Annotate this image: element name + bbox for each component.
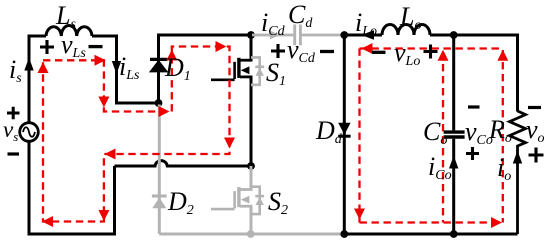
- ac source vs: [20, 123, 39, 142]
- capacitor Cd branch (gray): [252, 25, 343, 46]
- label Ro minus: [528, 106, 541, 109]
- iLs arrow: [112, 61, 121, 74]
- node top Dd: [340, 31, 348, 39]
- svg-text:S1: S1: [266, 58, 286, 89]
- red arrow left at (105,154): [105, 149, 116, 160]
- label Ro plus: [529, 148, 544, 163]
- svg-text:S2: S2: [268, 187, 288, 218]
- label vLo plus: [424, 45, 438, 59]
- gray bottom rail: [159, 233, 345, 236]
- svg-text:vLs: vLs: [61, 30, 86, 61]
- svg-text:Ls: Ls: [55, 1, 76, 32]
- svg-text:Ro: Ro: [488, 115, 512, 146]
- red loop 1 dashed path: [43, 47, 230, 222]
- red arrow left at (362,48.5): [362, 43, 373, 54]
- red loop 2 dashed frame: [360, 49, 503, 223]
- wire horizontal y=103: [115, 102, 159, 105]
- node top S1/Cd: [247, 31, 255, 39]
- bottom right rail: [344, 233, 518, 236]
- io arrow: [513, 151, 522, 164]
- label vCd minus: [320, 50, 334, 53]
- node bottom Co: [450, 230, 458, 238]
- svg-text:Co: Co: [423, 117, 447, 148]
- red arrow up at (502.8,50): [497, 50, 508, 61]
- diode Dd wire: [343, 35, 346, 234]
- label Co minus: [468, 105, 480, 108]
- svg-text:vLo: vLo: [394, 38, 420, 69]
- diode D1 wire: [157, 35, 160, 103]
- svg-text:iLs: iLs: [119, 52, 140, 83]
- node top Co: [450, 31, 458, 39]
- wire Lo to Co node: [430, 34, 454, 37]
- red arrow down at (359.5,219): [354, 209, 365, 220]
- label vCd plus: [271, 44, 285, 58]
- transistor S1: [211, 35, 253, 166]
- svg-text:is: is: [9, 55, 22, 86]
- wire bottom-left step: [29, 141, 115, 234]
- red arrow down at (104,220.5): [98, 210, 109, 221]
- node at D1 bottom: [155, 99, 163, 107]
- svg-text:iCd: iCd: [261, 8, 286, 39]
- svg-text:vs: vs: [3, 117, 18, 144]
- svg-text:D2: D2: [167, 187, 194, 218]
- S2 body diode (gray): [251, 187, 264, 214]
- red arrow right near (104,60): [95, 55, 106, 66]
- svg-text:vo: vo: [526, 115, 545, 146]
- transistor S2 (gray): [211, 166, 253, 234]
- svg-text:D1: D1: [164, 53, 191, 84]
- inductor Ls: [46, 26, 92, 36]
- svg-text:Cd: Cd: [288, 0, 313, 31]
- S1 body diode (gray): [251, 57, 264, 84]
- svg-text:iCo: iCo: [428, 152, 452, 183]
- red arrow up at (43,63): [38, 62, 49, 73]
- iCo arrow: [449, 156, 458, 169]
- capacitor Co branch: [444, 35, 465, 234]
- wire left vertical top (source to Ls): [29, 36, 46, 123]
- diode D1 symbol: [150, 59, 167, 71]
- red arrow down at (104,107): [98, 97, 109, 108]
- node S1 source / middle wire: [247, 162, 255, 170]
- red arrow right at (501.5,222.5): [491, 217, 502, 228]
- red arrow right at (169,111.5): [159, 106, 170, 117]
- diode Dd symbol: [338, 123, 350, 136]
- iCd gray arrow: [270, 31, 281, 40]
- label +vLs- plus: [40, 40, 54, 54]
- svg-text:Lo: Lo: [399, 2, 421, 33]
- svg-text:iLo: iLo: [355, 8, 377, 39]
- wire top-left to iLs branch: [92, 36, 117, 103]
- label Co plus: [466, 147, 479, 160]
- resistor Ro: [510, 111, 526, 234]
- diode D2 symbol (gray): [152, 196, 167, 208]
- svg-text:Dd: Dd: [315, 116, 343, 147]
- node S2 source on gray rail: [247, 230, 255, 238]
- label vLo minus: [372, 51, 386, 54]
- label vs plus: [7, 107, 20, 120]
- inductor Lo: [382, 25, 430, 35]
- wire top middle (D1 to S1 drain): [157, 34, 251, 37]
- is arrow: [24, 58, 33, 71]
- red arrow down at (229.5,148): [224, 138, 235, 149]
- label vLs minus: [89, 45, 103, 48]
- wire top right (to Lo): [344, 34, 382, 37]
- wire top right corner to Ro: [454, 35, 518, 112]
- red arrow right at (226,46.5): [216, 41, 227, 52]
- red arrow left at (42.5,221.5): [42, 216, 53, 227]
- red arrow up at (171.8,50): [166, 50, 177, 61]
- label vs minus: [8, 152, 20, 155]
- red arrow up at (443,50): [438, 50, 449, 61]
- svg-text:io: io: [497, 153, 511, 184]
- iLo arrow: [361, 30, 374, 39]
- node bottom Dd: [340, 230, 348, 238]
- wire middle horizontal with hop: [115, 161, 252, 166]
- diode D2 wire (gray): [158, 105, 161, 235]
